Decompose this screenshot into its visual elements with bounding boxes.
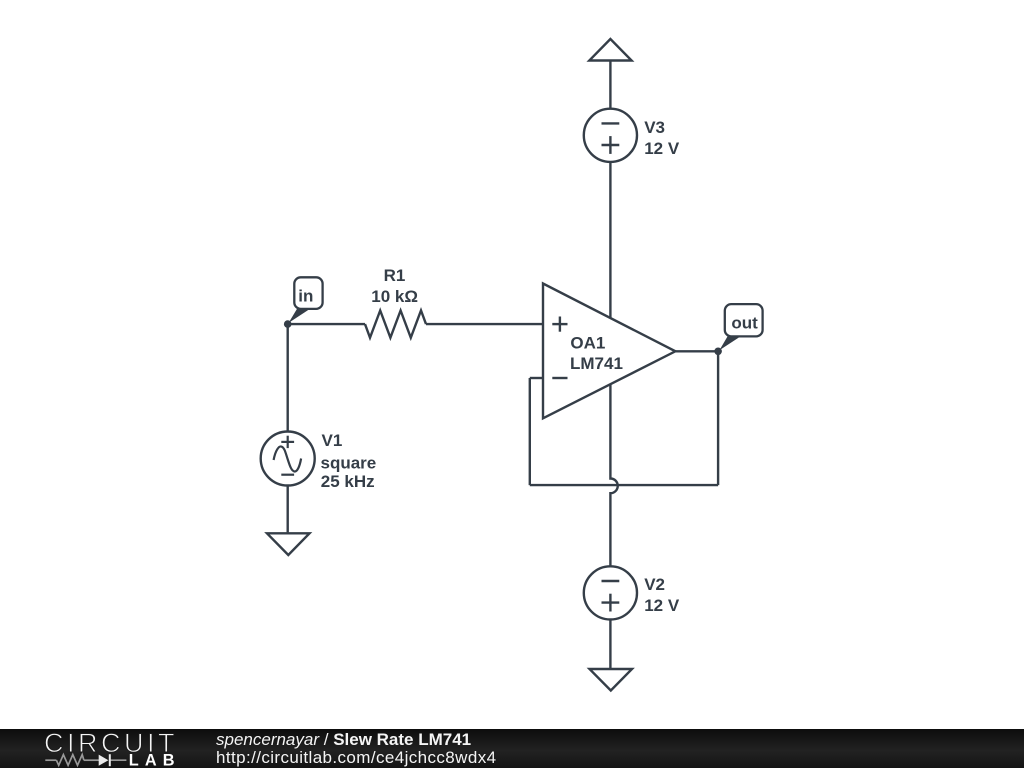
svg-text:LM741: LM741 bbox=[570, 354, 623, 373]
ground (left) bbox=[267, 533, 310, 555]
footer text bbox=[216, 731, 496, 766]
svg-text:V1: V1 bbox=[322, 431, 343, 450]
V1 sine waveform bbox=[274, 446, 302, 471]
wire op-amp output to out node bbox=[675, 350, 718, 352]
wire V+ arrow to V3 bbox=[609, 60, 611, 109]
wire V3 to op-amp V+ pin bbox=[609, 162, 611, 320]
svg-text:LAB: LAB bbox=[129, 752, 181, 768]
feedback wire: out node down bbox=[717, 351, 719, 485]
net flag "in" pointer bbox=[289, 308, 309, 323]
svg-text:V3: V3 bbox=[644, 118, 665, 137]
wire V2 to ground bbox=[609, 620, 611, 669]
net flag "out" pointer bbox=[719, 335, 740, 350]
wire in node down to V1 bbox=[287, 324, 289, 432]
op-amp V- pin wire with hop over feedback bbox=[610, 385, 617, 567]
feedback wire: stub to - input bbox=[530, 377, 543, 379]
svg-text:square: square bbox=[321, 453, 377, 472]
svg-text:OA1: OA1 bbox=[570, 333, 605, 352]
svg-text:12 V: 12 V bbox=[644, 596, 680, 615]
net flag "out" box bbox=[725, 304, 763, 336]
svg-text:in: in bbox=[298, 286, 313, 305]
ground (bottom) bbox=[590, 669, 633, 691]
wire R1 to op-amp + input bbox=[426, 323, 543, 325]
wire V1 to ground bbox=[287, 486, 289, 533]
footer bar bbox=[0, 729, 1024, 768]
power rail arrow (V+) bbox=[589, 39, 631, 61]
voltage source V3 bbox=[584, 109, 637, 162]
svg-text:out: out bbox=[731, 313, 758, 332]
CircuitLab logo bbox=[0, 728, 200, 768]
feedback wire: left vertical bbox=[529, 378, 531, 485]
wire in node to R1 bbox=[288, 323, 365, 325]
feedback wire: bottom horizontal bbox=[530, 484, 718, 486]
svg-text:12 V: 12 V bbox=[644, 139, 680, 158]
node in (junction dot) bbox=[284, 320, 292, 328]
svg-text:25 kHz: 25 kHz bbox=[321, 472, 375, 491]
svg-text:V2: V2 bbox=[644, 575, 665, 594]
svg-text:R1: R1 bbox=[384, 266, 406, 285]
net flag "in" box bbox=[294, 277, 322, 309]
voltage source V1 bbox=[261, 432, 315, 486]
svg-text:10 kΩ: 10 kΩ bbox=[371, 287, 418, 306]
op-amp OA1 bbox=[543, 284, 675, 419]
resistor R1 bbox=[365, 311, 426, 338]
voltage source V2 bbox=[584, 566, 637, 619]
node out (junction dot) bbox=[714, 348, 722, 356]
